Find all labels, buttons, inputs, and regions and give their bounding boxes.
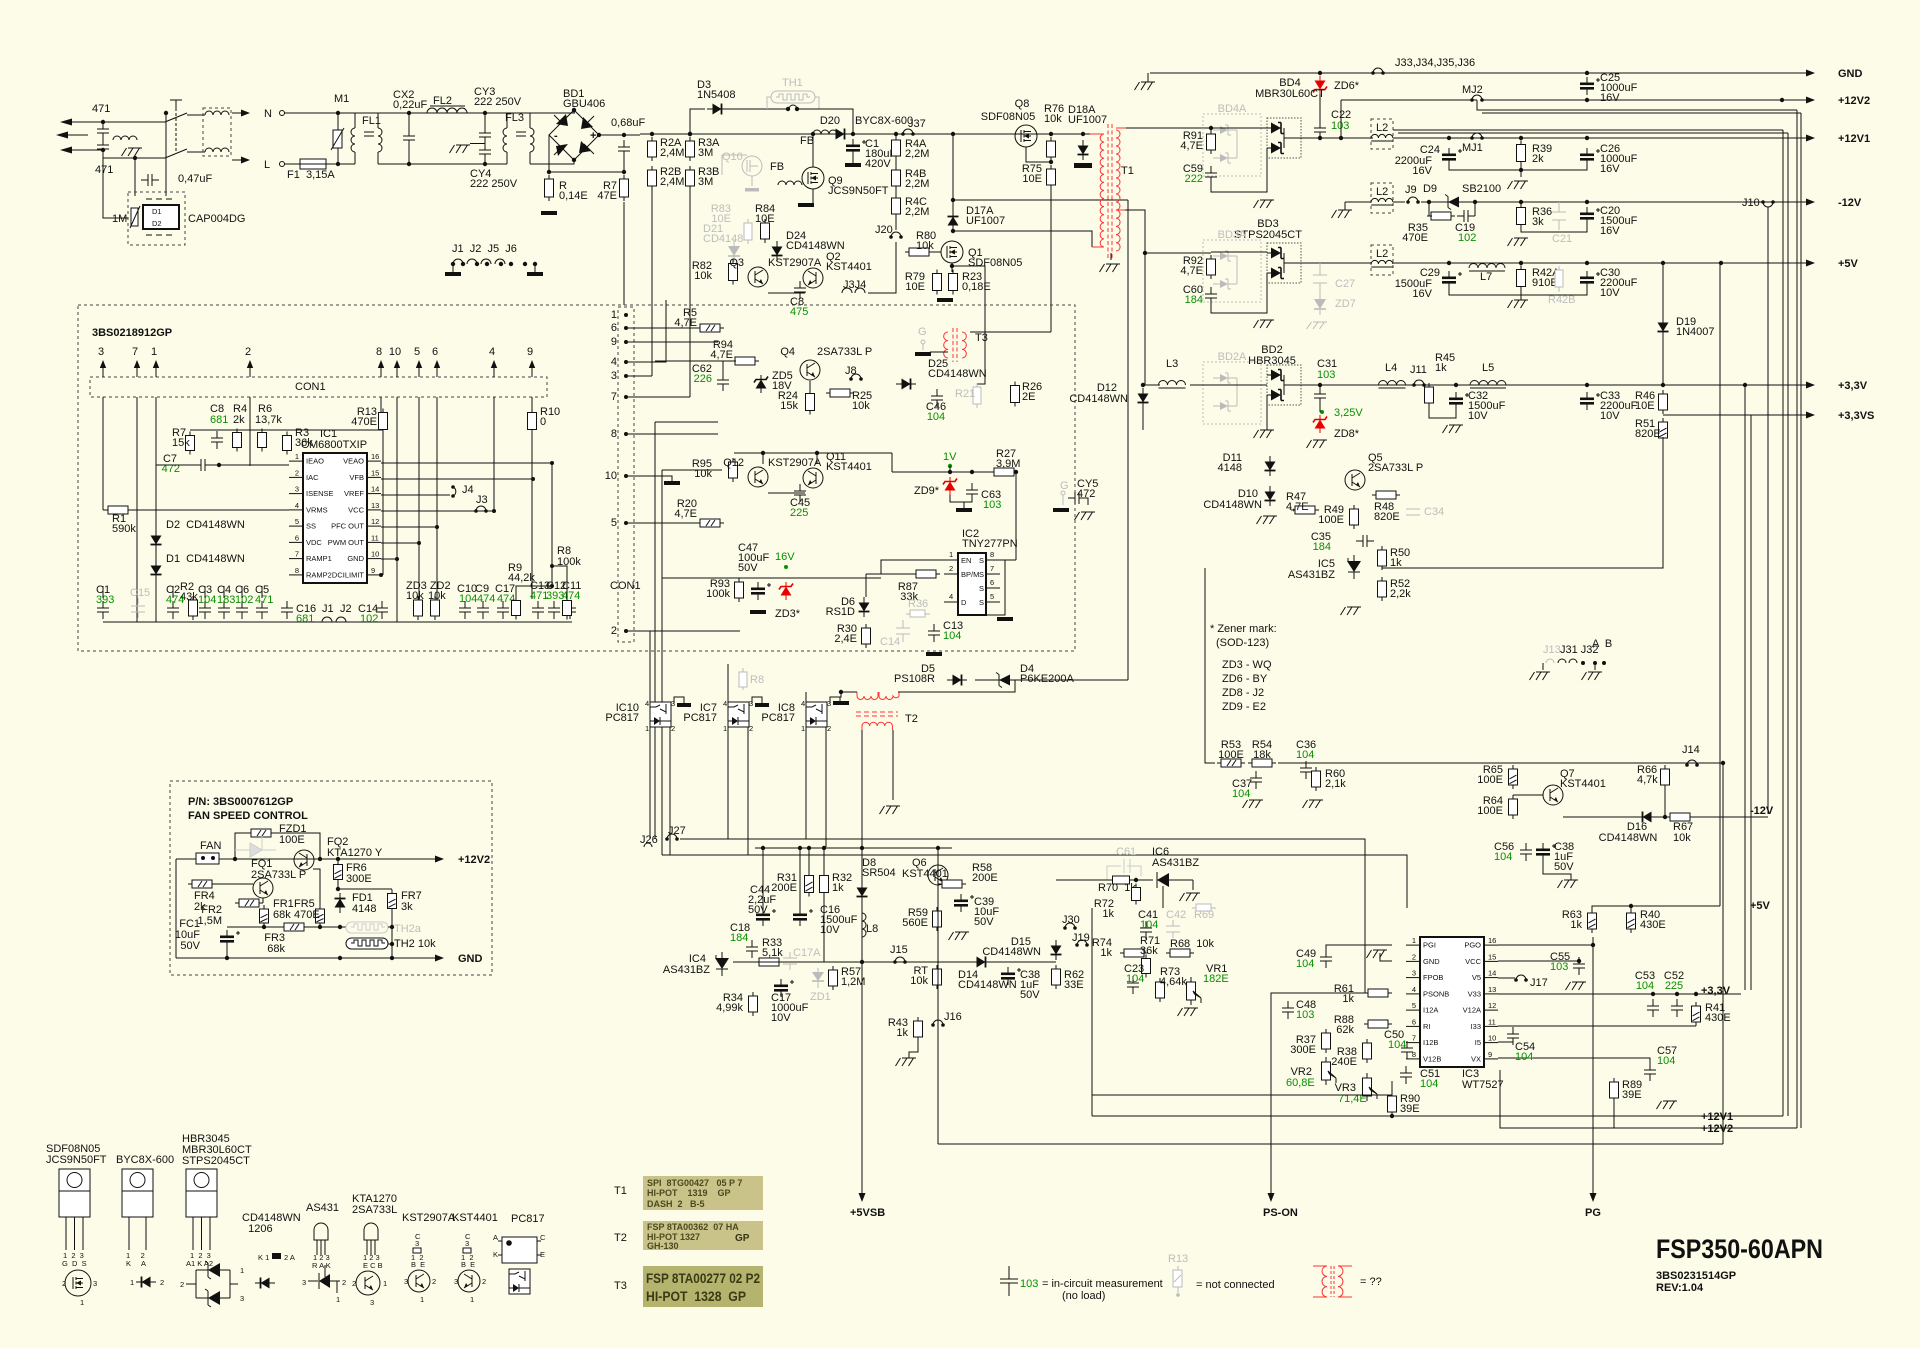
wire CON1R 4 stub [626, 300, 666, 362]
capacitor C19 val label [1458, 232, 1476, 244]
text J13 [1543, 644, 1561, 656]
svg-text:200E: 200E [972, 872, 998, 884]
resistor R59 label label [902, 907, 928, 929]
svg-text:4: 4 [611, 356, 617, 368]
module 3BS0218912GP label label [92, 327, 172, 339]
svg-text:10k: 10k [694, 468, 712, 480]
resistor R40 [1627, 909, 1636, 933]
jumper J4 [451, 485, 456, 498]
svg-text:+12V1: +12V1 [1701, 1111, 1733, 1123]
wire col8 lower [382, 430, 384, 575]
wire fan left [175, 859, 177, 958]
svg-text:M1: M1 [334, 93, 349, 105]
svg-text:590k: 590k [112, 523, 136, 535]
resistor R47 label label [1286, 491, 1309, 513]
svg-text:470E: 470E [351, 416, 377, 428]
svg-text:J27: J27 [668, 825, 686, 837]
package 4401 symbol [458, 1270, 480, 1292]
ferrite bead FB1 [813, 130, 837, 134]
svg-text:BD2A: BD2A [1218, 351, 1247, 363]
ground BD4 [1254, 200, 1275, 208]
svg-text:475: 475 [790, 306, 808, 318]
diode FD gray [235, 836, 276, 857]
svg-text:E: E [540, 1250, 545, 1259]
svg-text:A B: A B [1592, 638, 1612, 650]
ground R bottom [541, 211, 557, 215]
diode D2 label label [166, 519, 245, 531]
svg-text:2: 2 [432, 1277, 436, 1286]
resistor 1M label label [112, 213, 127, 225]
svg-text:13,7k: 13,7k [255, 414, 282, 426]
svg-text:1N4007: 1N4007 [1676, 326, 1715, 338]
svg-text:7: 7 [132, 346, 138, 358]
inductor L2-3 [1371, 260, 1393, 267]
svg-text:103: 103 [1317, 369, 1335, 381]
ground +5v [1508, 300, 1529, 308]
svg-text:2: 2 [827, 724, 831, 733]
capacitor C27 gray [1313, 263, 1327, 293]
svg-text:104: 104 [1420, 1078, 1438, 1090]
svg-text:C61: C61 [1116, 846, 1136, 858]
wire N rail [284, 112, 575, 114]
capacitor C24 v2 label [1395, 155, 1433, 167]
capacitor C23 val label [1126, 973, 1144, 985]
ground ZD8 [1307, 440, 1328, 448]
svg-text:FSP 8TA00362 07 HA: FSP 8TA00362 07 HA [647, 1222, 739, 1232]
diode FD1 label label [352, 892, 376, 915]
bus v 1783 [1782, 130, 1784, 1116]
wire CON1R 7 stub [626, 396, 690, 398]
svg-text:CD4148: CD4148 [703, 233, 743, 245]
resistor R89 [1610, 1078, 1619, 1102]
wire J1 gnd [452, 264, 454, 272]
svg-text:L8: L8 [866, 923, 878, 935]
svg-text:SDF08N05: SDF08N05 [981, 111, 1035, 123]
arrow out L [232, 157, 250, 164]
svg-text:14: 14 [1488, 969, 1496, 978]
svg-text:39E: 39E [1622, 1089, 1642, 1101]
jumper J27 [665, 834, 679, 841]
svg-text:PC817: PC817 [761, 712, 795, 724]
diode D6 [859, 597, 870, 617]
module fan box [170, 781, 492, 975]
diode D18A label label [1068, 104, 1107, 126]
diode D5 [947, 675, 967, 686]
resistor R30 label label [834, 623, 857, 645]
resistor R26 [1011, 382, 1020, 407]
svg-text:J37: J37 [908, 118, 926, 130]
inductor L2-2 [1371, 198, 1393, 205]
svg-text:2: 2 [611, 625, 617, 637]
rectifier BD4 part label [1255, 88, 1325, 100]
capacitor C53 [1647, 999, 1659, 1017]
svg-text:1k: 1k [1102, 908, 1114, 920]
mosfet Q1 [941, 241, 963, 263]
junction 12v1 [1447, 136, 1589, 172]
capacitor C12 tag [546, 580, 566, 602]
wire TH right [388, 927, 392, 944]
svg-text:KST2907A: KST2907A [768, 457, 822, 469]
wire D17A col [952, 134, 954, 211]
svg-text:J8: J8 [845, 365, 857, 377]
capacitor C36 label label [1296, 739, 1316, 751]
wire snub right [1474, 202, 1476, 216]
svg-text:2,2M: 2,2M [905, 148, 929, 160]
transistor Q2 [803, 268, 823, 288]
svg-text:L7: L7 [1480, 271, 1492, 283]
capacitor C29 label label [1420, 267, 1440, 279]
resistor R53 [1217, 759, 1245, 767]
capacitor C38s [1001, 967, 1021, 985]
svg-text:J11: J11 [1410, 364, 1427, 376]
wire FQ2 emitter [313, 869, 320, 909]
jumper chain [451, 259, 537, 266]
svg-text:10V: 10V [820, 924, 840, 936]
capacitor CX2 label label [393, 89, 428, 111]
wire C62 top [722, 361, 724, 373]
junction D3 [688, 132, 692, 136]
svg-text:* Zener mark:: * Zener mark: [1210, 623, 1277, 635]
wire R89 dn [1613, 1098, 1615, 1128]
resistor R72v label label [1094, 898, 1115, 920]
text zener note [1210, 623, 1277, 713]
resistor R50 label label [1390, 547, 1410, 569]
resistor R43 [914, 1017, 923, 1041]
svg-text:240E: 240E [1331, 1056, 1357, 1068]
wire standby top [755, 847, 952, 849]
wire cap004 left [103, 158, 128, 218]
svg-text:R13: R13 [1168, 1253, 1188, 1265]
capacitor C17s [774, 979, 794, 997]
svg-text:7: 7 [611, 391, 617, 403]
ground CY mid [450, 145, 471, 153]
wire c44 up [762, 848, 764, 908]
jumper J8 label label [845, 365, 857, 377]
jumper J4 label label [462, 484, 474, 496]
resistor R3B label label [698, 166, 719, 188]
wire pin 4 drop [493, 397, 495, 511]
transistor Q2 label label [826, 251, 872, 273]
svg-text:C42: C42 [1166, 909, 1186, 921]
pin 8 wire [380, 368, 382, 377]
svg-text:2: 2 [949, 564, 953, 573]
capacitor FC1 label label [175, 918, 201, 952]
svg-text:ZD9 - E2: ZD9 - E2 [1222, 701, 1266, 713]
svg-text:KST4401: KST4401 [826, 261, 872, 273]
jumper J26 arc [644, 843, 652, 847]
wire BD3 in row [1145, 252, 1211, 254]
wire IC1 gnd bus [103, 621, 572, 623]
svg-text:D20: D20 [820, 115, 840, 127]
wire -12V line [1563, 816, 1768, 818]
jumper J20 [889, 232, 903, 239]
arrow +3,3VS [1797, 412, 1815, 419]
arrow -12V [1797, 199, 1815, 206]
capacitor C33 [1580, 392, 1600, 410]
resistor R2B [648, 166, 657, 190]
svg-text:50V: 50V [738, 562, 758, 574]
thermistor TH2a gray [346, 922, 422, 935]
resistor R68 label label [1170, 938, 1215, 950]
capacitor C32 [1449, 392, 1469, 410]
bridge BD1 diamond [549, 110, 599, 160]
resistor R36 label label [1532, 206, 1552, 228]
resistor R84 [761, 219, 770, 243]
svg-text:2: 2 [482, 1277, 486, 1286]
resistor R64 label label [1477, 795, 1503, 817]
inductor filter [113, 136, 137, 140]
resistor R34 label label [716, 992, 743, 1014]
capacitor C57 label label [1657, 1045, 1677, 1057]
svg-text:R70 1k: R70 1k [1098, 882, 1136, 894]
wire cap004 drop1 [134, 158, 136, 180]
resistor FR3 [280, 923, 308, 931]
rectifier BD2 part label [1248, 355, 1296, 367]
diode D3 [707, 104, 727, 115]
svg-text:300E: 300E [346, 873, 372, 885]
svg-text:PGO: PGO [1464, 941, 1481, 950]
diode D20 part label [855, 115, 913, 127]
jumper J15 [893, 957, 907, 964]
svg-text:18k: 18k [1253, 749, 1271, 761]
capacitor C16s [793, 908, 813, 926]
svg-text:1: 1 [1412, 936, 1416, 945]
resistor FR6 [334, 861, 343, 884]
svg-text:RI: RI [1423, 1022, 1431, 1031]
wire cap 0.68 down [623, 158, 625, 172]
wire r32 up [823, 848, 825, 875]
wire d8 up [861, 848, 863, 882]
resistor R32 label label [832, 872, 852, 894]
ground R39 [1508, 181, 1529, 189]
capacitor C62 val label [694, 373, 712, 385]
wire pin 9 drop [531, 397, 533, 412]
transistor Q3 [748, 267, 768, 287]
svg-text:ZD6 - BY: ZD6 - BY [1222, 673, 1268, 685]
pin CON1R 4 [611, 356, 628, 368]
ground C57 [1657, 1101, 1678, 1109]
wire +5v loop [1592, 906, 1720, 912]
resistor R1 [104, 506, 132, 514]
capacitor C9 tag [475, 583, 495, 605]
svg-text:3BS0218912GP: 3BS0218912GP [92, 327, 172, 339]
wire C3 up [204, 586, 206, 598]
junction snub [1427, 200, 1477, 204]
wire cy5 [1086, 498, 1088, 505]
1V green [943, 451, 957, 472]
capacitor C9 [477, 601, 489, 619]
package SOT23 4401 [461, 1232, 475, 1269]
svg-text:V33: V33 [1468, 989, 1481, 998]
junction CX2 [407, 111, 411, 166]
resistor R4B [892, 166, 901, 190]
pin 6 wire [436, 368, 438, 377]
svg-text:BD4A: BD4A [1218, 103, 1247, 115]
svg-text:B E: B E [411, 1260, 425, 1269]
svg-text:CD4148WN: CD4148WN [1599, 832, 1658, 844]
resistor R2B label label [660, 166, 684, 188]
ground zd9 [956, 508, 972, 512]
junction 3v3 [1318, 383, 1747, 387]
transformer T2 [856, 692, 899, 730]
svg-text:1: 1 [151, 346, 157, 358]
svg-text:104: 104 [1636, 980, 1654, 992]
inductor L8 [862, 913, 866, 937]
resistor R48 label label [1374, 501, 1400, 523]
svg-text:(no load): (no load) [1062, 1290, 1105, 1302]
svg-text:222 250V: 222 250V [474, 96, 522, 108]
svg-text:AS431BZ: AS431BZ [663, 964, 710, 976]
capacitor C45 [794, 484, 806, 502]
svg-text:4,7E: 4,7E [674, 317, 697, 329]
junction R76 [1049, 132, 1053, 164]
junction r bus [547, 133, 626, 174]
wire fan midbus [227, 926, 346, 928]
resistor R4C label label [905, 196, 929, 218]
transformer FL3 label label [505, 112, 524, 124]
resistor R50 [1378, 546, 1387, 570]
inductor L3 label label [1166, 358, 1178, 370]
capacitor C48 label label [1296, 999, 1316, 1011]
svg-text:10E: 10E [905, 281, 925, 293]
pin 10 number [389, 346, 401, 358]
ground T2 [880, 806, 901, 814]
svg-text:VEAO: VEAO [343, 457, 364, 466]
svg-text:MBR30L60CT: MBR30L60CT [1255, 88, 1325, 100]
svg-text:9: 9 [611, 336, 617, 348]
capacitor C59 val label [1185, 173, 1203, 185]
capacitor C45 label label [790, 497, 810, 509]
ground C38b [1558, 880, 1579, 888]
diode D9 part label [1462, 183, 1501, 195]
resistor R65 label label [1477, 764, 1503, 786]
svg-text:100E: 100E [1477, 774, 1503, 786]
bus v 1205 [1204, 568, 1206, 763]
svg-text:FAN: FAN [200, 840, 221, 852]
wire +3,3V rail [1297, 384, 1806, 386]
svg-text:PC817: PC817 [683, 712, 717, 724]
diode D15 part label [982, 946, 1041, 958]
svg-text:430E: 430E [1640, 919, 1666, 931]
resistor R45 [1425, 383, 1434, 407]
wire EN link [881, 560, 944, 574]
svg-text:4148: 4148 [1218, 462, 1242, 474]
resistor R8 gray mid [739, 668, 764, 690]
svg-text:2: 2 [245, 346, 251, 358]
resistor R37 label label [1290, 1034, 1316, 1056]
svg-text:2k: 2k [1532, 153, 1544, 165]
svg-text:10k: 10k [694, 270, 712, 282]
wire R87 left [866, 573, 912, 575]
svg-text:100E: 100E [279, 834, 305, 846]
wire q7 base [1513, 794, 1543, 796]
resistor R94 [731, 357, 759, 365]
pin 1 arrow [153, 360, 159, 374]
svg-text:1N5408: 1N5408 [697, 89, 736, 101]
wire FZD1 loop [235, 833, 247, 859]
package diode symbol [136, 1277, 156, 1288]
svg-text:9: 9 [527, 346, 533, 358]
svg-text:AS431BZ: AS431BZ [1288, 569, 1335, 581]
svg-text:820E: 820E [1374, 511, 1400, 523]
shunt IC4 label label [689, 953, 706, 965]
wire switch out N [187, 114, 205, 116]
diode D8 [857, 882, 868, 902]
resistor R4A label label [905, 138, 929, 160]
wire c63 gnd [963, 502, 965, 508]
wire zd9 node [892, 471, 1016, 473]
svg-text:J30: J30 [1062, 914, 1080, 926]
wire +12V2 bot [1500, 1070, 1797, 1128]
package TO92 AS431 [312, 1223, 331, 1270]
resistor R6 [258, 429, 267, 452]
D18A bar [1074, 132, 1092, 168]
wire CX2 bot [408, 147, 410, 164]
resistor R82 label label [692, 260, 713, 282]
wire T3 left [930, 351, 948, 353]
pin CON1R 5 [611, 517, 628, 529]
capacitor C57 [1644, 1063, 1656, 1081]
svg-text:CD4148WN: CD4148WN [1069, 393, 1128, 405]
capacitor CY5 label label [1077, 478, 1098, 500]
capacitor C13 tag [530, 580, 550, 602]
opto IC8 [806, 702, 827, 727]
wire pin10 [381, 558, 397, 560]
rectifier BD4 [1267, 118, 1301, 158]
wire 655 top [655, 421, 718, 423]
pin 6 number [432, 346, 438, 358]
svg-text:HI-POT 1328 GP: HI-POT 1328 GP [646, 1288, 746, 1304]
wire FQ1 emitter [262, 898, 264, 903]
wire R8 top [552, 566, 567, 599]
wire ic2 s [986, 560, 1005, 615]
svg-text:222 250V: 222 250V [470, 178, 518, 190]
arrow PS-ON [1268, 1186, 1275, 1202]
wire 12V2 loop2 [1482, 112, 1801, 114]
wire FC1 dn [226, 948, 228, 958]
pin 1 wire [155, 368, 157, 377]
T1 red stub out1 [1116, 127, 1126, 129]
junction +5v [1447, 261, 1723, 265]
resistor R42B label label [1548, 294, 1576, 306]
pin CON1R 7 [611, 391, 628, 403]
wire R7 down [623, 202, 625, 305]
capacitor C22 label label [1331, 109, 1351, 121]
varistor 1M [130, 206, 140, 228]
svg-text:Q12: Q12 [723, 457, 744, 469]
pin 9 arrow [529, 360, 535, 374]
svg-text:-: - [554, 130, 558, 142]
wire C59 dn [1211, 148, 1267, 192]
bus v 1788 [1787, 133, 1789, 1116]
svg-text:KST4401: KST4401 [826, 461, 872, 473]
diode D17A [948, 211, 959, 231]
svg-text:2SA733L P: 2SA733L P [1368, 462, 1423, 474]
svg-text:226: 226 [694, 373, 712, 385]
svg-text:4,7E: 4,7E [710, 349, 733, 361]
R40 +5V stub [1629, 904, 1633, 912]
opto IC7 pins [723, 699, 753, 733]
mosfet Q8 part label [981, 111, 1035, 123]
svg-text:470E: 470E [294, 909, 320, 921]
svg-text:2: 2 [180, 1280, 184, 1289]
svg-text:SPI 8TG00427 05 P 7: SPI 8TG00427 05 P 7 [647, 1178, 742, 1188]
svg-text:104: 104 [1657, 1055, 1675, 1067]
resistor R66 label label [1637, 764, 1658, 786]
svg-text:RS1D: RS1D [826, 606, 855, 618]
capacitor C41 [1140, 921, 1152, 939]
capacitor C56 [1520, 843, 1532, 861]
